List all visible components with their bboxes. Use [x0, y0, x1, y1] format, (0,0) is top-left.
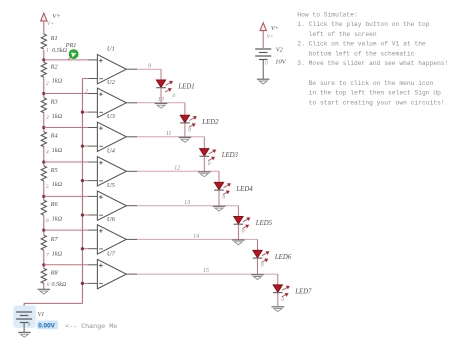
op-amp U7	[88, 251, 137, 289]
node 4 junction on ladder	[42, 160, 45, 163]
node 6 junction on ladder	[42, 229, 45, 232]
svg-text:LED7: LED7	[294, 289, 312, 296]
op-amp U3	[88, 113, 137, 151]
wire U1 output to LED1 (net 9)	[137, 69, 161, 80]
op-amp U4	[88, 148, 137, 186]
svg-text:3. Move the slider and see wha: 3. Move the slider and see what happens!	[297, 60, 448, 67]
wire LED7 cathode to ground	[277, 293, 279, 307]
voltage source V1 (selected, highlighted)	[13, 306, 44, 328]
LED LED6	[253, 250, 292, 262]
op-amp U2	[88, 79, 137, 117]
svg-text:bottom left of the schematic: bottom left of the schematic	[297, 51, 414, 58]
ground below LED5	[232, 239, 245, 241]
svg-text:LED5: LED5	[255, 220, 273, 227]
voltage source V2 power flag arrow	[260, 23, 279, 48]
svg-text:1kΩ: 1kΩ	[52, 181, 63, 188]
svg-text:U2: U2	[107, 79, 116, 86]
ground below LED7	[272, 306, 285, 308]
LED LED4	[214, 182, 253, 194]
V1 value display 0.00V	[37, 321, 58, 330]
svg-text:2: 2	[46, 81, 49, 87]
svg-text:6: 6	[46, 218, 49, 224]
svg-text:LED1: LED1	[177, 84, 194, 91]
wire LED4 cathode to ground	[218, 190, 220, 206]
svg-text:14: 14	[193, 233, 199, 240]
ground below LED4	[213, 205, 226, 207]
node 7 junction on ladder	[42, 263, 45, 266]
LED LED7	[273, 285, 312, 297]
svg-text:0: 0	[261, 263, 264, 269]
inverting input bus wire from U1 down to V1 wire	[82, 79, 88, 304]
wire V1 negative to ground	[23, 323, 25, 333]
svg-text:R2: R2	[50, 63, 59, 70]
wire LED5 cathode to ground	[237, 224, 239, 240]
svg-text:1kΩ: 1kΩ	[52, 147, 63, 154]
svg-text:U1: U1	[107, 46, 115, 53]
wire U7 output to LED7 (net 15)	[137, 274, 278, 285]
svg-text:0: 0	[281, 297, 284, 303]
wire LED2 cathode to ground	[184, 123, 186, 137]
junction of bus with U7 inverting input	[81, 282, 89, 285]
svg-text:R8: R8	[50, 269, 59, 276]
wire node 1 to U1 non-inverting input	[44, 59, 89, 61]
wire LED1 cathode to ground	[160, 88, 162, 104]
ground below V2	[257, 78, 270, 80]
svg-text:R5: R5	[50, 167, 58, 174]
wire V1 to inverting bus	[24, 303, 82, 312]
junction of bus with U6 inverting input	[81, 247, 89, 250]
resistor R3	[41, 98, 62, 120]
svg-text:PR1: PR1	[65, 42, 77, 49]
svg-text:0: 0	[222, 195, 225, 201]
svg-text:5: 5	[46, 184, 49, 190]
svg-text:10V: 10V	[275, 58, 286, 65]
op-amp U1	[88, 46, 137, 84]
svg-text:LED4: LED4	[235, 186, 253, 193]
wire node 4 to U4 non-inverting input	[44, 161, 89, 163]
svg-text:V+: V+	[52, 13, 60, 20]
svg-text:R4: R4	[50, 133, 58, 140]
svg-text:1: 1	[46, 48, 49, 54]
svg-text:1kΩ: 1kΩ	[52, 215, 63, 222]
instructions text block	[297, 11, 448, 106]
resistor R4	[41, 132, 62, 154]
svg-text:15: 15	[203, 268, 209, 274]
op-amp U6	[88, 216, 137, 254]
ladder wire segments between resistors	[43, 50, 45, 289]
svg-text:R7: R7	[50, 236, 59, 243]
ground below LED3	[198, 171, 211, 173]
svg-text:2. Click on the value of V1 at: 2. Click on the value of V1 at the	[297, 41, 426, 48]
resistor R7	[41, 235, 62, 257]
LED LED3	[200, 149, 239, 161]
svg-text:V+: V+	[47, 21, 54, 27]
svg-text:U3: U3	[107, 113, 116, 120]
wire V+ flag to R1	[43, 21, 45, 34]
svg-text:3: 3	[45, 115, 49, 121]
wire U4 output to LED4 (net 12)	[137, 171, 219, 183]
resistor R1	[41, 34, 67, 54]
wire node 6 to U6 non-inverting input	[44, 229, 89, 231]
svg-text:1kΩ: 1kΩ	[52, 250, 63, 257]
resistor R5	[41, 166, 62, 188]
junction of bus with U5 inverting input	[81, 213, 89, 216]
svg-text:0: 0	[208, 161, 211, 167]
ground below V1	[18, 331, 31, 333]
ground below LED1	[155, 102, 168, 104]
svg-text:0: 0	[188, 127, 191, 133]
svg-text:R6: R6	[50, 201, 59, 208]
power flag V+ (net V+)	[41, 13, 61, 27]
wire node 3 to U3 non-inverting input	[44, 127, 89, 129]
svg-text:to start creating your own cir: to start creating your own circuits!	[297, 99, 444, 106]
node 3 junction on ladder	[42, 126, 45, 129]
svg-text:4: 4	[46, 150, 49, 156]
svg-text:U7: U7	[107, 251, 116, 258]
svg-text:R1: R1	[50, 35, 58, 42]
node 1 junction on ladder	[42, 58, 45, 61]
resistor R2	[41, 62, 62, 84]
junction of bus with U3 inverting input	[81, 145, 89, 148]
wire node 2 to U2 non-inverting input	[44, 93, 89, 95]
svg-text:1kΩ: 1kΩ	[52, 113, 63, 120]
svg-text:left of the screen: left of the screen	[297, 31, 377, 38]
svg-text:0.00V: 0.00V	[38, 323, 55, 330]
svg-text:U4: U4	[107, 148, 116, 155]
svg-text:0: 0	[265, 61, 268, 67]
wire LED3 cathode to ground	[203, 156, 205, 172]
svg-text:LED6: LED6	[274, 254, 292, 261]
resistor R6	[41, 200, 62, 222]
node 2 junction on ladder	[42, 92, 45, 95]
ground below LED6	[251, 274, 264, 276]
LED LED1	[156, 80, 194, 92]
probe PR1	[65, 42, 78, 60]
ground below R8	[38, 288, 51, 290]
wire U2 output to LED2 (net 10)	[137, 103, 185, 116]
junction of bus with U4 inverting input	[81, 179, 89, 182]
junction of bus with U2 inverting input	[81, 111, 89, 114]
resistor R8	[41, 268, 67, 288]
wire LED6 cathode to ground	[257, 258, 259, 275]
svg-text:V2: V2	[276, 46, 284, 53]
ground below LED2	[179, 136, 192, 138]
svg-text:13: 13	[184, 200, 190, 206]
svg-text:12: 12	[174, 165, 180, 171]
svg-text:<-- Change Me: <-- Change Me	[65, 323, 117, 331]
op-amp U5	[88, 182, 137, 220]
svg-text:1kΩ: 1kΩ	[52, 78, 63, 85]
svg-text:How to Simulate:: How to Simulate:	[297, 11, 357, 18]
svg-text:7: 7	[46, 253, 49, 259]
svg-text:in the top left then select Si: in the top left then select Sign Up	[297, 90, 441, 97]
svg-text:R3: R3	[50, 99, 58, 106]
LED LED2	[180, 115, 219, 127]
node 5 junction on ladder	[42, 195, 45, 198]
svg-text:LED2: LED2	[201, 119, 219, 126]
wire node 5 to U5 non-inverting input	[44, 195, 89, 197]
LED LED5	[234, 217, 273, 229]
wire U6 output to LED6 (net 14)	[137, 239, 257, 251]
svg-text:11: 11	[166, 131, 171, 137]
svg-text:V+: V+	[267, 34, 274, 40]
svg-text:U5: U5	[107, 182, 116, 189]
voltage source V2 battery (10V)	[255, 46, 283, 59]
svg-text:V+: V+	[271, 25, 279, 32]
svg-text:0: 0	[28, 322, 31, 328]
svg-text:0: 0	[172, 93, 175, 99]
svg-text:LED3: LED3	[221, 152, 239, 159]
svg-text:0: 0	[47, 282, 50, 288]
wire U5 output to LED5 (net 13)	[137, 206, 238, 217]
svg-text:0: 0	[242, 229, 245, 235]
svg-text:0.5kΩ: 0.5kΩ	[51, 281, 66, 288]
svg-text:V1: V1	[38, 312, 45, 318]
svg-text:9: 9	[148, 63, 151, 69]
wire node 7 to U7 non-inverting input	[44, 264, 89, 266]
svg-text:Be sure to click on the menu i: Be sure to click on the menu icon	[297, 80, 433, 87]
svg-text:U6: U6	[107, 216, 116, 223]
svg-text:2: 2	[85, 88, 88, 94]
wire U3 output to LED3 (net 11)	[137, 137, 204, 149]
wire V2 negative to ground	[262, 60, 264, 80]
svg-text:1. Click the play button on th: 1. Click the play button on the top	[297, 21, 429, 28]
